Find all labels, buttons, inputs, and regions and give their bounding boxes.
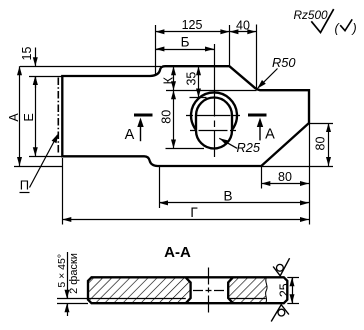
svg-text:15: 15	[20, 47, 34, 61]
chamfer extension lines	[57, 298, 88, 300]
svg-text:Б: Б	[181, 35, 190, 50]
vertical centerline of slot	[214, 44, 216, 159]
svg-text:2 фаски: 2 фаски	[68, 253, 80, 294]
part outline (plate front view)	[62, 66, 309, 166]
extension line left-top level	[29, 76, 62, 78]
svg-text:35: 35	[184, 72, 198, 86]
section horizontal centerline	[193, 290, 224, 292]
svg-text:): )	[351, 21, 357, 35]
roughness check bottom	[271, 305, 289, 322]
svg-text:В: В	[223, 188, 232, 203]
svg-text:Г: Г	[190, 205, 198, 220]
svg-text:40: 40	[236, 19, 250, 33]
extension line x256 (R50 corner)	[256, 25, 258, 90]
svg-text:R25: R25	[237, 140, 261, 155]
svg-text:25: 25	[278, 283, 292, 297]
extension line slot bottom tangent	[166, 148, 205, 150]
dimension V (bottom)	[159, 202, 309, 204]
dimension 125	[155, 31, 229, 33]
dimension 40	[229, 31, 256, 33]
svg-text:П: П	[20, 178, 29, 193]
leader R25	[219, 138, 237, 148]
dimension G (bottom)	[62, 219, 309, 221]
circle R25 (counterbore edge)	[191, 92, 237, 129]
svg-text:R50: R50	[272, 55, 296, 70]
extension line x62 down	[62, 158, 64, 225]
section hole walls	[186, 277, 234, 303]
section slab outline	[88, 277, 287, 303]
section mark right arrow	[259, 124, 261, 140]
extension line bottom level left	[14, 166, 62, 168]
extension line y90 (top-right level)	[166, 90, 257, 92]
dimension 80 right	[328, 123, 330, 166]
extension line x155 (step)	[155, 25, 157, 76]
extension line slot top tangent	[190, 97, 207, 99]
dimension 35	[198, 66, 200, 97]
svg-text:125: 125	[182, 18, 203, 32]
dimension 15	[35, 48, 37, 67]
extension line x159 down (step)	[159, 166, 161, 208]
dimension E	[35, 76, 37, 156]
extension line x261 down	[261, 166, 263, 189]
extension line x229 (corner)	[229, 25, 231, 66]
svg-text:А: А	[7, 113, 21, 122]
svg-text:80: 80	[278, 170, 292, 184]
extension line top edge level	[20, 66, 161, 68]
extension line x309 down	[309, 123, 311, 225]
leader R50	[258, 69, 278, 88]
dimension K	[173, 66, 175, 90]
svg-text:80: 80	[314, 137, 328, 151]
extension line y166 right	[261, 166, 333, 168]
dimension A (height)	[19, 66, 21, 166]
extension line left-bottom level	[29, 156, 62, 158]
dimension B (top)	[155, 49, 214, 51]
horizontal centerline (circle center)	[186, 115, 242, 117]
far-side chamfer edge line left	[88, 298, 186, 300]
svg-text:Rz500: Rz500	[294, 8, 329, 22]
dimension 80 bottom	[261, 183, 309, 185]
horizontal centerline (slot lower arc center)	[190, 130, 238, 132]
extension line y123 right	[309, 123, 333, 125]
svg-text:А: А	[125, 127, 135, 143]
svg-text:А: А	[265, 127, 275, 143]
far-side chamfer edge line right	[228, 298, 266, 300]
section mark right bar	[248, 114, 267, 117]
section slab hatch right	[228, 277, 267, 303]
slot (oblong hole)	[196, 98, 232, 149]
svg-text:80: 80	[160, 110, 174, 124]
section slab hatch left	[88, 277, 191, 303]
svg-text:(: (	[335, 21, 341, 35]
svg-text:А-А: А-А	[164, 244, 191, 261]
section mark left arrow	[140, 124, 142, 141]
chamfer dimension line	[67, 252, 69, 299]
check mark main	[311, 9, 333, 32]
leader P	[30, 135, 58, 188]
svg-text:К: К	[161, 76, 175, 84]
extension lines 25	[287, 277, 299, 279]
svg-text:5 × 45°: 5 × 45°	[56, 254, 68, 288]
hatch break wavy line	[266, 277, 268, 303]
dimension 25	[292, 277, 294, 303]
svg-text:Е: Е	[22, 113, 36, 121]
surface P mark (thick dash-dot line)	[57, 78, 59, 154]
dimension 80 left	[173, 90, 175, 148]
roughness check top	[273, 258, 290, 276]
section mark left bar	[134, 114, 153, 117]
section vertical centerline	[208, 268, 210, 314]
